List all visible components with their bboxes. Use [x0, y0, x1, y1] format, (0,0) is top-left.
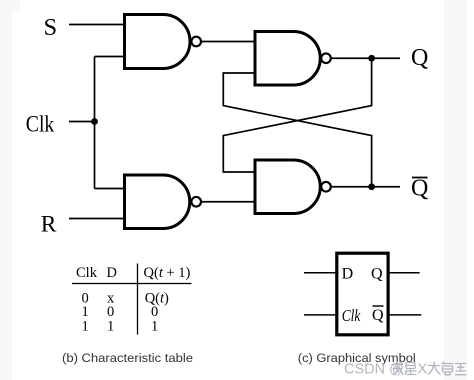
wire Qbar feedback to G3 lower input [223, 73, 371, 187]
NAND gate G4 bubble [321, 182, 331, 192]
wire D input [304, 272, 337, 274]
wire Clk to gate1 lower input [95, 56, 125, 58]
svg-text:Q: Q [372, 307, 384, 324]
svg-text:R: R [41, 212, 57, 238]
watermark glyphs2 [428, 362, 467, 375]
NAND gate G2 body [125, 175, 190, 229]
NAND gate G1 bubble [191, 37, 201, 47]
watermark glyphs [392, 362, 417, 375]
wire G2 output to G4 [201, 201, 255, 203]
svg-text:Q: Q [411, 45, 428, 71]
svg-text:Q(t + 1): Q(t + 1) [144, 265, 191, 281]
svg-text:D: D [342, 266, 354, 283]
table horizontal rule [72, 283, 192, 285]
wire S input [69, 24, 125, 26]
wire R input [69, 218, 125, 220]
svg-text:Q: Q [411, 175, 428, 201]
wire G3 output to Q [331, 57, 400, 59]
symbol box U1 [337, 253, 388, 335]
NAND gate G3 body [255, 32, 320, 86]
svg-text:X: X [418, 362, 428, 378]
svg-text:0: 0 [107, 304, 114, 320]
svg-text:1: 1 [107, 319, 114, 335]
svg-text:Clk: Clk [76, 265, 98, 281]
label Qbar overbar [412, 177, 428, 179]
wire Clk input [304, 314, 337, 316]
svg-text:1: 1 [151, 319, 158, 335]
wire Clk to gate2 upper input [95, 188, 125, 190]
svg-text:(b) Characteristic table: (b) Characteristic table [62, 351, 193, 365]
node Clk junction [91, 118, 98, 125]
svg-text:Q: Q [371, 266, 383, 283]
node Qbar junction [368, 183, 375, 190]
watermark CSDN [344, 362, 404, 378]
svg-text:Clk: Clk [26, 112, 55, 138]
svg-text:Clk: Clk [342, 306, 361, 325]
NAND gate G1 body [125, 15, 191, 69]
wire Q output [388, 272, 420, 274]
wire Clk input [69, 121, 95, 123]
svg-text:1: 1 [82, 304, 89, 320]
NAND gate G3 bubble [321, 53, 331, 63]
svg-text:0: 0 [151, 304, 158, 320]
NAND gate G2 bubble [191, 197, 201, 207]
wire G4 output to Qbar [331, 186, 400, 188]
svg-text:1: 1 [82, 319, 89, 335]
table vertical rule [137, 264, 139, 335]
node Q junction [368, 55, 375, 62]
pin label Qbar overbar [373, 305, 384, 307]
svg-text:S: S [44, 14, 58, 41]
NAND gate G4 body [255, 160, 320, 214]
wire Q feedback to G4 upper input [223, 58, 371, 172]
wire G1 output to G3 [201, 41, 255, 43]
wire Clk vertical branch [94, 57, 96, 189]
svg-text:D: D [107, 265, 117, 281]
wire Qbar output [388, 314, 421, 316]
